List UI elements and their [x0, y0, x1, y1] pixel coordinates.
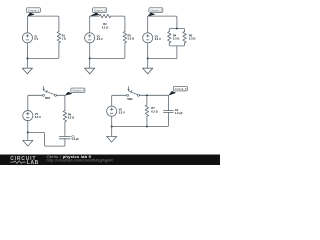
- svg-text:Circuit_5: Circuit_5: [175, 87, 187, 91]
- resistor R1: [57, 32, 60, 43]
- ground C3: [143, 58, 153, 73]
- svg-text:1.2 µF: 1.2 µF: [71, 137, 79, 141]
- ground C5: [107, 127, 117, 143]
- wire bottom C2: [90, 43, 125, 59]
- svg-text:3.3 V: 3.3 V: [97, 37, 103, 41]
- wire top-left C2: [90, 16, 100, 33]
- wire top C1: [27, 16, 59, 33]
- svg-text:Circuit_1: Circuit_1: [28, 9, 40, 13]
- svg-text:3.3 V: 3.3 V: [35, 115, 41, 119]
- wire rail top C3: [169, 29, 184, 32]
- svg-text:3.3 V: 3.3 V: [155, 37, 161, 41]
- wire top-left C4: [28, 95, 43, 110]
- voltage source V4: [23, 111, 33, 121]
- svg-text:3.3 Ω: 3.3 Ω: [189, 37, 196, 41]
- voltage source V3: [143, 33, 153, 43]
- resistor R6: [63, 111, 66, 122]
- svg-text:1.2 µF: 1.2 µF: [175, 111, 183, 115]
- svg-text:5 V: 5 V: [34, 37, 38, 41]
- wire drop C3: [148, 43, 177, 59]
- resistor R3: [123, 32, 126, 43]
- wire top-right C2: [111, 16, 125, 31]
- voltage source V2: [85, 33, 95, 43]
- wire top-right C4: [57, 95, 65, 110]
- svg-text:3.3 V: 3.3 V: [119, 111, 125, 115]
- switch SW2: [127, 94, 129, 96]
- svg-text:Circuit_3: Circuit_3: [150, 9, 162, 13]
- node C1 junction: [26, 57, 28, 59]
- resistor R5: [183, 32, 186, 43]
- resistor R2: [99, 14, 110, 17]
- ground C2: [85, 58, 95, 73]
- ground C1: [22, 58, 32, 73]
- callout Circuit_2: [90, 13, 100, 17]
- callout Circuit_5: [168, 91, 176, 96]
- resistor R7: [145, 95, 148, 126]
- voltage source V5: [107, 106, 117, 116]
- wire R6 to C1: [64, 122, 66, 136]
- wire bottom C1: [27, 43, 59, 59]
- node C2 junction: [89, 57, 91, 59]
- svg-text:6.2 Ω: 6.2 Ω: [68, 116, 75, 120]
- node C5 bottom junction R7: [146, 125, 148, 127]
- svg-text:SW1: SW1: [45, 97, 51, 100]
- capacitor C2: [164, 111, 174, 113]
- svg-text:LAB: LAB: [27, 160, 39, 165]
- svg-text:3.3 Ω: 3.3 Ω: [173, 37, 180, 41]
- callout Circuit_4: [65, 92, 73, 96]
- voltage source V1: [22, 33, 32, 43]
- callout Circuit_1: [27, 13, 35, 17]
- wire rail bottom C3: [169, 43, 184, 46]
- svg-text:2.2 Ω: 2.2 Ω: [102, 25, 109, 29]
- svg-text:Circuit_2: Circuit_2: [94, 9, 106, 13]
- node C5 bottom junction V5: [111, 125, 113, 127]
- resistor R4: [168, 32, 171, 43]
- wire top-right C5: [140, 95, 169, 110]
- svg-text:Circuit_4: Circuit_4: [72, 89, 84, 93]
- switch SW1: [43, 94, 45, 96]
- node C3 top junction: [176, 27, 178, 29]
- svg-text:http://circuitlab.com/c/am9543: http://circuitlab.com/c/am9543g/hgd4t: [47, 158, 113, 162]
- node C5 top junction: [146, 94, 148, 96]
- wire bottom C5: [112, 112, 169, 126]
- node C3 bottom junction: [147, 57, 149, 59]
- callout Circuit_3: [148, 13, 156, 17]
- svg-text:3.3 Ω: 3.3 Ω: [128, 37, 135, 41]
- wire bottom C4: [28, 121, 65, 146]
- ground C4: [23, 132, 33, 146]
- wire top-left C5: [112, 95, 127, 106]
- svg-text:6.2 Ω: 6.2 Ω: [151, 109, 158, 113]
- wire top C3: [148, 16, 177, 33]
- svg-text:SW2: SW2: [127, 98, 133, 101]
- capacitor C1: [59, 137, 70, 139]
- node C4 junction: [27, 131, 29, 133]
